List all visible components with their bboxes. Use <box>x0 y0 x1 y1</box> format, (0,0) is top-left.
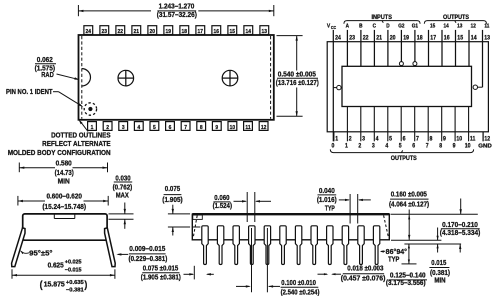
svg-text:21: 21 <box>376 35 383 41</box>
svg-text:3: 3 <box>122 125 125 131</box>
svg-text:INPUTS: INPUTS <box>371 14 392 21</box>
svg-text:MAX: MAX <box>116 193 129 200</box>
svg-text:15: 15 <box>457 35 464 41</box>
svg-text:13: 13 <box>484 35 490 41</box>
svg-text:0.075: 0.075 <box>165 186 180 193</box>
svg-text:−0.015: −0.015 <box>65 268 82 274</box>
svg-text:9: 9 <box>453 143 456 149</box>
svg-text:23: 23 <box>102 29 108 35</box>
svg-text:9: 9 <box>443 136 446 142</box>
svg-text:12: 12 <box>484 136 490 142</box>
svg-text:7: 7 <box>416 136 419 142</box>
svg-text:20: 20 <box>150 29 156 35</box>
svg-text:0.040: 0.040 <box>319 188 335 195</box>
svg-text:(15.24–15.748): (15.24–15.748) <box>42 204 86 211</box>
svg-text:86°94°: 86°94° <box>386 248 408 256</box>
svg-text:3: 3 <box>362 136 365 142</box>
svg-text:RAD: RAD <box>41 72 54 79</box>
svg-text:24: 24 <box>335 35 342 41</box>
svg-text:D: D <box>386 23 390 29</box>
svg-text:2: 2 <box>358 143 361 149</box>
svg-text:(1.905 ±0.381): (1.905 ±0.381) <box>141 275 181 282</box>
svg-text:0.015: 0.015 <box>431 260 446 267</box>
svg-text:11: 11 <box>245 125 250 131</box>
svg-text:16: 16 <box>444 35 450 41</box>
svg-text:A: A <box>346 23 350 29</box>
svg-text:11: 11 <box>470 136 476 142</box>
svg-text:0.580: 0.580 <box>56 161 72 168</box>
svg-text:MIN: MIN <box>58 178 70 185</box>
svg-text:(1.905): (1.905) <box>162 197 182 204</box>
svg-text:(0.381): (0.381) <box>430 270 450 277</box>
svg-text:0.075 ±0.015: 0.075 ±0.015 <box>143 266 178 273</box>
svg-text:10: 10 <box>230 125 236 131</box>
svg-text:14: 14 <box>444 23 449 29</box>
svg-text:12: 12 <box>261 125 267 131</box>
svg-text:17: 17 <box>430 35 436 41</box>
svg-text:19: 19 <box>403 35 409 41</box>
svg-text:2: 2 <box>349 136 352 142</box>
svg-text:6: 6 <box>403 136 406 142</box>
svg-text:0.160 ±0.005: 0.160 ±0.005 <box>391 191 427 198</box>
svg-text:10: 10 <box>465 143 471 149</box>
svg-text:0.062: 0.062 <box>37 57 53 64</box>
svg-text:C: C <box>373 23 377 29</box>
svg-text:6: 6 <box>412 143 415 149</box>
svg-text:13: 13 <box>262 29 268 35</box>
svg-text:0.170–0.210: 0.170–0.210 <box>442 222 478 229</box>
svg-text:CC: CC <box>331 25 336 30</box>
svg-text:(14.73): (14.73) <box>55 170 74 177</box>
svg-text:7: 7 <box>184 125 187 131</box>
svg-text:9: 9 <box>215 125 218 131</box>
svg-text:): ) <box>84 279 87 291</box>
svg-text:11: 11 <box>484 23 489 29</box>
svg-text:(4.318–5.334): (4.318–5.334) <box>440 230 481 237</box>
svg-text:B: B <box>359 23 363 29</box>
svg-text:0.600–0.620: 0.600–0.620 <box>46 194 82 201</box>
svg-text:(0.229–0.381): (0.229–0.381) <box>129 256 168 263</box>
svg-text:(1.016): (1.016) <box>317 197 337 204</box>
svg-text:21: 21 <box>134 29 140 35</box>
svg-text:0.625: 0.625 <box>48 262 64 269</box>
svg-text:0.018 ±0.003: 0.018 ±0.003 <box>347 265 383 272</box>
svg-text:TYP: TYP <box>388 257 399 264</box>
svg-text:G1: G1 <box>412 23 418 29</box>
svg-text:24: 24 <box>86 29 92 35</box>
svg-text:PIN NO. 1 IDENT: PIN NO. 1 IDENT <box>6 89 53 96</box>
svg-text:8: 8 <box>439 143 442 149</box>
svg-text:OUTPUTS: OUTPUTS <box>391 155 418 162</box>
svg-text:5: 5 <box>153 125 156 131</box>
svg-text:1.243–1.270: 1.243–1.270 <box>159 4 195 11</box>
svg-text:OUTPUTS: OUTPUTS <box>443 14 470 21</box>
svg-text:−0.381: −0.381 <box>66 288 84 294</box>
svg-text:95°±5°: 95°±5° <box>29 249 53 257</box>
svg-text:18: 18 <box>417 35 423 41</box>
svg-text:(2.540 ±0.254): (2.540 ±0.254) <box>281 289 320 296</box>
svg-text:V: V <box>327 23 331 29</box>
svg-text:0.060: 0.060 <box>214 195 229 202</box>
svg-text:+0.025: +0.025 <box>65 260 82 266</box>
svg-text:16: 16 <box>214 29 220 35</box>
svg-text:+0.635: +0.635 <box>66 280 84 286</box>
svg-text:20: 20 <box>390 35 396 41</box>
svg-text:8: 8 <box>200 125 203 131</box>
svg-text:17: 17 <box>198 29 204 35</box>
svg-text:(1.524): (1.524) <box>213 203 232 210</box>
svg-text:(3.175–3.556): (3.175–3.556) <box>386 280 426 287</box>
svg-text:(0.762): (0.762) <box>113 185 133 192</box>
svg-text:15: 15 <box>230 29 236 35</box>
svg-text:0.030: 0.030 <box>115 175 130 182</box>
svg-text:14: 14 <box>246 29 252 35</box>
svg-text:3: 3 <box>372 143 375 149</box>
svg-text:22: 22 <box>118 29 124 35</box>
svg-text:(13.716 ±0.127): (13.716 ±0.127) <box>276 80 319 87</box>
svg-text:4: 4 <box>137 125 140 131</box>
svg-text:13: 13 <box>457 23 462 29</box>
svg-text:10: 10 <box>456 136 462 142</box>
svg-text:14: 14 <box>471 35 478 41</box>
svg-text:19: 19 <box>166 29 172 35</box>
svg-text:(4.064 ±0.127): (4.064 ±0.127) <box>389 201 429 208</box>
svg-text:22: 22 <box>363 35 369 41</box>
svg-text:0: 0 <box>331 143 334 149</box>
svg-text:TYP: TYP <box>325 206 335 213</box>
svg-text:12: 12 <box>471 23 476 29</box>
svg-text:MIN: MIN <box>434 277 445 284</box>
svg-text:23: 23 <box>349 35 355 41</box>
svg-text:0.009–0.015: 0.009–0.015 <box>129 246 165 253</box>
svg-text:18: 18 <box>182 29 188 35</box>
svg-text:MOLDED BODY CONFIGURATION: MOLDED BODY CONFIGURATION <box>8 148 111 157</box>
svg-text:0.125–0.140: 0.125–0.140 <box>390 272 426 279</box>
svg-text:0.100 ±0.010: 0.100 ±0.010 <box>281 280 316 287</box>
svg-text:7: 7 <box>426 143 429 149</box>
svg-text:(31.57–32.26): (31.57–32.26) <box>157 12 197 19</box>
svg-text:0.540 ±0.005: 0.540 ±0.005 <box>278 71 316 78</box>
svg-text:GND: GND <box>478 144 492 150</box>
svg-text:15.875: 15.875 <box>44 282 65 289</box>
svg-text:6: 6 <box>169 125 172 131</box>
svg-text:15: 15 <box>430 23 435 29</box>
svg-text:(0.457 ±0.076): (0.457 ±0.076) <box>341 276 386 283</box>
svg-text:8: 8 <box>430 136 433 142</box>
svg-text:G2: G2 <box>398 23 404 29</box>
